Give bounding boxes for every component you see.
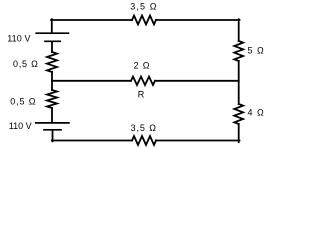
battery V2 110 V bottom: short plate [44, 129, 61, 131]
wire right upper (top rail to 5 ohm) [238, 19, 240, 41]
svg-text:110 V: 110 V [7, 34, 30, 44]
battery V2 110 V bottom: long plate [36, 122, 69, 124]
svg-text:5 Ω: 5 Ω [248, 46, 264, 56]
wire battery V1 to resistor 0,5 upper [51, 42, 53, 52]
wire middle (left segment of middle rail) [52, 80, 131, 82]
wire battery V2 to bottom rail [52, 130, 54, 141]
resistor 3,5 ohm top zigzag [132, 16, 156, 25]
resistor 0,5 ohm upper zigzag [47, 52, 57, 72]
battery V1 110 V top: short plate [45, 40, 60, 42]
resistor 3,5 ohm bottom zigzag [132, 136, 156, 145]
wire bottom (left segment of bottom rail) [52, 140, 132, 142]
wire right middle (5 ohm to 4 ohm through middle node) [238, 61, 240, 104]
wire middle (right segment of middle rail) [155, 80, 239, 82]
svg-text:3,5 Ω: 3,5 Ω [131, 123, 157, 133]
svg-text:110 V: 110 V [9, 121, 32, 131]
wire right lower (4 ohm to bottom rail) [238, 124, 240, 142]
wire 0,5 lower to battery V2 [51, 108, 53, 122]
wire bottom (right segment of bottom rail) [156, 140, 240, 142]
resistor 0,5 ohm lower zigzag [47, 90, 57, 108]
resistor 5 ohm zigzag [234, 41, 243, 61]
svg-text:R: R [138, 90, 145, 100]
wire top left (battery V1 to resistor R1 top lead) [51, 19, 53, 33]
svg-text:0,5 Ω: 0,5 Ω [10, 96, 36, 106]
resistor 4 ohm zigzag [234, 104, 243, 124]
svg-text:4 Ω: 4 Ω [248, 108, 264, 118]
svg-text:0,5 Ω: 0,5 Ω [13, 59, 38, 69]
wire left middle (0,5 upper to 0,5 lower, middle node A) [51, 72, 53, 90]
battery V1 110 V top: long plate [36, 32, 68, 34]
svg-text:3,5 Ω: 3,5 Ω [130, 1, 157, 11]
resistor R 2 ohm zigzag [131, 77, 155, 85]
wire top (right segment of top rail) [156, 19, 240, 21]
wire top (left segment of top rail) [51, 19, 132, 21]
svg-text:2 Ω: 2 Ω [134, 61, 150, 71]
